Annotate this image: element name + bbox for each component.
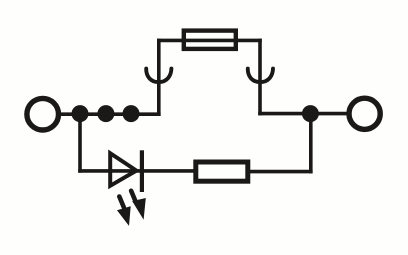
junction dot right — [302, 105, 319, 122]
LED D1 — [110, 150, 142, 192]
fuse F1 — [184, 31, 236, 49]
wire: resistor to right corner — [248, 170, 311, 174]
wire: left leg vertical to fuse — [157, 40, 161, 114]
wire: LED branch horizontal — [80, 169, 196, 173]
terminal circle left — [27, 98, 59, 130]
junction dot 1 — [72, 105, 89, 122]
test socket left — [146, 69, 171, 83]
test socket right — [248, 69, 273, 83]
resistor R1 — [196, 162, 248, 181]
wire: right dot stub down — [309, 114, 313, 172]
wire: fuse link horizontal — [159, 39, 260, 43]
wire: right leg to right terminal — [260, 112, 349, 116]
LED arrow 2 — [131, 191, 146, 220]
terminal circle right — [349, 98, 380, 129]
wire: left terminal to left leg corner — [60, 112, 159, 116]
LED arrow 1 — [117, 197, 131, 226]
wire: right leg vertical from fuse — [258, 40, 262, 113]
junction dot 3 — [123, 105, 140, 122]
wire: LED branch vertical — [78, 114, 82, 171]
junction dot 2 — [97, 105, 114, 122]
